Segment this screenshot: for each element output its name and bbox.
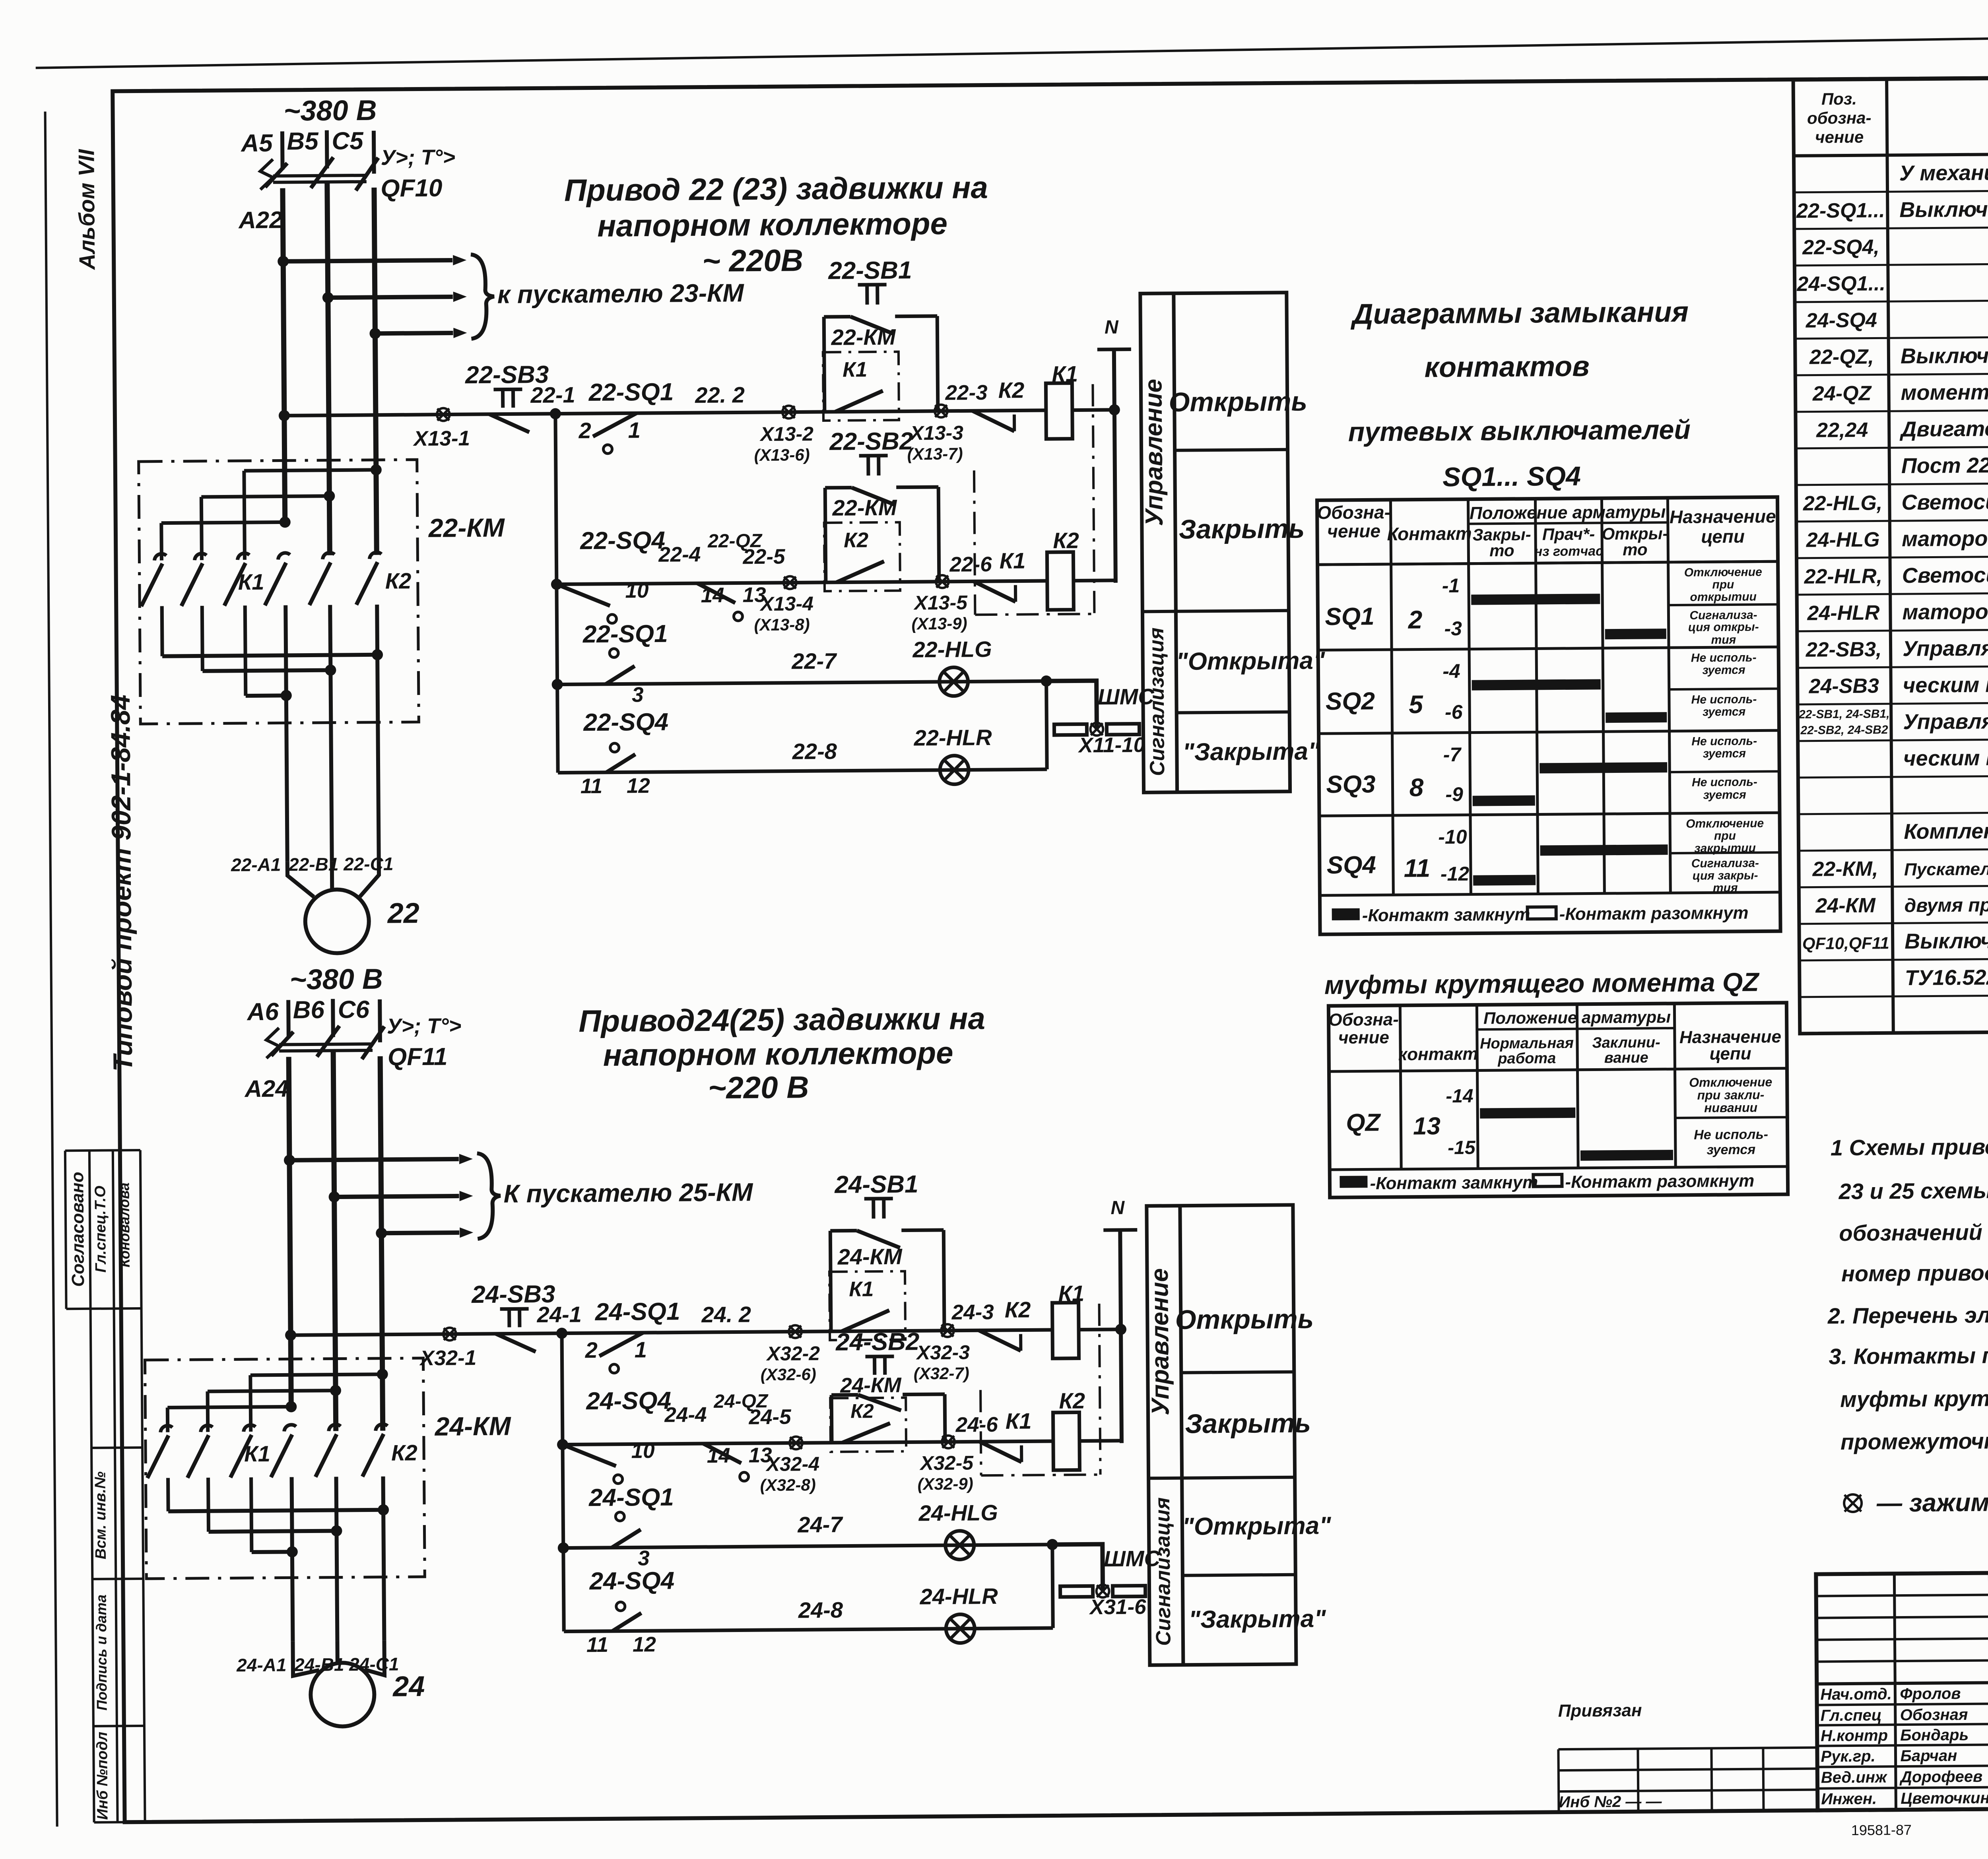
wire jumper A-K1	[167, 1407, 291, 1407]
svg-text:чение: чение	[1327, 520, 1380, 541]
wire to cabinet terminal	[1052, 1544, 1103, 1591]
svg-text:Управление: Управление	[1140, 379, 1168, 526]
svg-text:24-HLG: 24-HLG	[1806, 528, 1880, 551]
wire branch phase C	[381, 1232, 459, 1233]
svg-text:22-КМ,: 22-КМ,	[1812, 857, 1878, 881]
svg-text:Отключение: Отключение	[1684, 565, 1762, 579]
svg-text:22-SB3,: 22-SB3,	[1806, 638, 1882, 661]
svg-text:матором, с зеленым светофильт: матором, с зеленым светофильтром	[1902, 524, 1988, 551]
contactor contact 22-КМ K2 pole 3	[369, 552, 381, 559]
terminal Х32-4 (Х32-8)	[790, 1436, 802, 1449]
wire jumper C-K1	[244, 470, 376, 471]
svg-text:Нормальная: Нормальная	[1480, 1035, 1574, 1052]
svg-text:Инб №подл: Инб №подл	[94, 1732, 111, 1820]
svg-text:Отключение: Отключение	[1686, 817, 1764, 830]
auxiliary contact 22-КМ К2 (self-hold)	[824, 522, 900, 591]
svg-text:24-КМ: 24-КМ	[434, 1411, 511, 1441]
svg-text:Х32-3: Х32-3	[915, 1341, 970, 1364]
svg-text:QF11: QF11	[388, 1043, 448, 1071]
svg-text:Рук.гр.: Рук.гр.	[1821, 1748, 1875, 1766]
svg-text:8: 8	[1409, 773, 1424, 801]
svg-text:Х32-4: Х32-4	[765, 1453, 819, 1475]
svg-text:22-SQ1: 22-SQ1	[588, 378, 674, 406]
svg-text:Н.контр: Н.контр	[1821, 1727, 1888, 1745]
terminal Х32-1	[443, 1327, 456, 1340]
svg-text:Управляющий элемент КУ с ци: Управляющий элемент КУ с цилиндри-	[1903, 707, 1988, 734]
svg-text:24. 2: 24. 2	[701, 1302, 751, 1327]
svg-text:"Закрыта": "Закрыта"	[1182, 737, 1320, 766]
phase terminal ticks А5 В5 С5	[280, 131, 285, 169]
svg-text:муфты крутящего момента QZ: муфты крутящего момента QZ	[1324, 967, 1760, 1000]
svg-text:при: при	[1714, 829, 1736, 842]
svg-text:-9: -9	[1445, 783, 1463, 805]
svg-text:24-SQ1: 24-SQ1	[595, 1298, 680, 1326]
svg-text:SQ3: SQ3	[1326, 770, 1376, 798]
svg-text:(Х32-6): (Х32-6)	[761, 1365, 816, 1384]
svg-text:22-С1: 22-С1	[343, 854, 394, 875]
svg-text:-1: -1	[1442, 574, 1460, 597]
svg-text:Всм. инв.№: Всм. инв.№	[92, 1471, 109, 1559]
svg-text:2: 2	[578, 418, 591, 443]
wire branch to starter 23-КМ phase A	[283, 260, 452, 261]
wire phase bus C	[380, 1056, 383, 1431]
svg-text:Х13-2: Х13-2	[759, 423, 813, 445]
svg-text:24-3: 24-3	[951, 1300, 994, 1324]
contactor contact 22-КМ K1 pole 3	[237, 553, 249, 560]
contactor contact 22-КМ K1 pole 2	[194, 553, 206, 560]
svg-text:к пускателю 23-КМ: к пускателю 23-КМ	[497, 278, 745, 309]
svg-text:2. Перечень элементов приве: 2. Перечень элементов приведен на две за…	[1827, 1299, 1988, 1328]
svg-text:ТУ16.522.064-82: ТУ16.522.064-82	[1905, 965, 1988, 990]
svg-text:нз готчас: нз готчас	[1534, 543, 1604, 559]
svg-text:Инб №2 — —: Инб №2 — —	[1559, 1793, 1662, 1811]
svg-text:-14: -14	[1446, 1086, 1474, 1107]
svg-text:зуется: зуется	[1706, 1142, 1755, 1158]
svg-text:закрытии: закрытии	[1694, 842, 1756, 855]
svg-text:Не исполь-: Не исполь-	[1692, 776, 1757, 789]
terminal X on cabinet edge	[1096, 1585, 1109, 1597]
svg-text:промежуточном положении за: промежуточном положении задвижки	[1840, 1426, 1988, 1455]
svg-text:22-7: 22-7	[791, 648, 837, 674]
svg-text:Не исполь-: Не исполь-	[1694, 1127, 1768, 1142]
svg-text:Привод 22 (23) задвижки на: Привод 22 (23) задвижки на	[564, 170, 988, 208]
svg-text:-7: -7	[1443, 743, 1462, 766]
svg-text:обозначений аппаратов и мар: обозначений аппаратов и маркировки цепей…	[1839, 1216, 1988, 1246]
svg-text:24: 24	[392, 1671, 425, 1703]
svg-text:напорном коллекторе: напорном коллекторе	[597, 206, 947, 243]
svg-text:К1: К1	[843, 358, 867, 381]
brace	[477, 1153, 501, 1239]
svg-text:чение: чение	[1338, 1028, 1389, 1048]
svg-text:22-6: 22-6	[949, 553, 992, 576]
svg-text:Нач.отд.: Нач.отд.	[1820, 1685, 1892, 1703]
node 22-1 junction	[550, 408, 561, 419]
svg-text:— зажим шкафа ШУС: — зажим шкафа ШУС	[1876, 1487, 1988, 1517]
svg-text:22-SB2, 24-SB2: 22-SB2, 24-SB2	[1800, 723, 1888, 737]
svg-text:К1: К1	[999, 548, 1025, 573]
svg-text:Положение арматуры: Положение арматуры	[1470, 502, 1666, 523]
svg-text:22-SB1: 22-SB1	[828, 256, 912, 284]
svg-text:контакт: контакт	[1398, 1044, 1478, 1064]
sheet top edge line	[35, 29, 1988, 68]
svg-text:Х32-2: Х32-2	[766, 1342, 820, 1365]
svg-text:Обозна-: Обозна-	[1328, 1010, 1399, 1030]
contactor contact 24-КМ K2 pole 3	[376, 1424, 388, 1431]
svg-text:24-SB2: 24-SB2	[835, 1328, 920, 1356]
svg-text:22-SQ4: 22-SQ4	[583, 708, 668, 736]
svg-text:3: 3	[632, 683, 644, 706]
svg-text:Типовой проект 902-1-84.84: Типовой проект 902-1-84.84	[105, 695, 138, 1071]
push-button 24-SB2 branch	[830, 1395, 834, 1443]
svg-text:3: 3	[638, 1547, 650, 1570]
control purpose box drive 22	[1140, 293, 1290, 793]
title block revision grid	[1816, 1594, 1988, 1596]
svg-text:двумя приставками контактным: двумя приставками контактными ПКЛ2204	[1904, 893, 1988, 916]
svg-text:(Х32-9): (Х32-9)	[918, 1474, 973, 1493]
QZ table frame	[1328, 1003, 1788, 1197]
svg-text:при: при	[1712, 578, 1734, 591]
contactor contact 24-КМ K2 pole 2	[329, 1424, 341, 1431]
svg-text:нивании: нивании	[1704, 1100, 1757, 1115]
motor 24	[311, 1663, 375, 1727]
svg-text:номер привода, соответственно: номер привода, соответственно меняются н…	[1841, 1257, 1988, 1286]
svg-text:матором, с красным ·светофиль: матором, с красным ·светофильтром	[1902, 598, 1988, 624]
motor 22	[305, 889, 369, 953]
svg-text:1: 1	[628, 417, 641, 442]
svg-text:1: 1	[635, 1337, 647, 1362]
svg-text:Закрыть: Закрыть	[1178, 514, 1305, 545]
svg-text:Х31-6: Х31-6	[1089, 1595, 1146, 1619]
svg-text:22-HLR,: 22-HLR,	[1804, 565, 1882, 588]
title block signature rows	[1817, 1703, 1988, 1705]
svg-text:24-5: 24-5	[748, 1405, 792, 1429]
svg-text:22: 22	[386, 897, 419, 929]
wire motor leads	[293, 1641, 319, 1676]
svg-text:контактов: контактов	[1424, 351, 1590, 384]
svg-text:К1: К1	[244, 1441, 270, 1466]
svg-text:зуется: зуется	[1702, 664, 1745, 677]
svg-text:22-КМ: 22-КМ	[428, 513, 505, 543]
svg-text:К2: К2	[391, 1440, 417, 1465]
wire lower jumper to phase A drop	[252, 1550, 292, 1554]
svg-text:SQ4: SQ4	[1327, 851, 1376, 879]
svg-text:Привязан: Привязан	[1558, 1701, 1642, 1721]
svg-text:напорном коллекторе: напорном коллекторе	[603, 1035, 953, 1073]
svg-text:24-HLR: 24-HLR	[919, 1583, 998, 1609]
svg-text:QF10: QF10	[381, 175, 443, 202]
svg-text:Х13-1: Х13-1	[412, 427, 470, 450]
svg-text:А24: А24	[244, 1075, 289, 1102]
svg-text:Светосигнальная арматура с т: Светосигнальная арматура с трансфор-	[1901, 487, 1988, 514]
svg-text:К пускателю 25-КМ: К пускателю 25-КМ	[503, 1178, 753, 1208]
contactor contact 24-КМ K2 pole 1	[284, 1425, 296, 1432]
svg-text:Диаграммы замыкания: Диаграммы замыкания	[1350, 296, 1689, 330]
wire control rung 4 (signal closed) drive 24	[564, 1628, 1053, 1632]
legend clamp symbol	[1844, 1494, 1862, 1512]
node 24-1 junction	[556, 1328, 567, 1339]
svg-text:24-SQ4: 24-SQ4	[586, 1387, 671, 1415]
svg-text:чение: чение	[1815, 128, 1864, 147]
svg-text:А5: А5	[240, 130, 273, 157]
svg-text:1 Схемы приведены для пр: 1 Схемы приведены для приводов 22 и 24. …	[1831, 1131, 1988, 1160]
svg-text:11: 11	[580, 774, 602, 798]
svg-text:В6: В6	[293, 996, 324, 1024]
svg-text:22-SB2: 22-SB2	[829, 427, 913, 455]
svg-text:К2: К2	[385, 568, 412, 593]
auxiliary contact 24-КМ К1 (self-hold)	[829, 1271, 905, 1340]
wire branch to starter 25-КМ phase A	[289, 1159, 459, 1160]
svg-text:Светосигнальная арматура с т: Светосигнальная арматура с трансфор-	[1902, 561, 1988, 588]
wire branch phase B	[334, 1196, 459, 1197]
svg-text:Поз.: Поз.	[1821, 89, 1857, 109]
svg-text:22-HLR: 22-HLR	[913, 725, 992, 750]
svg-text:К2: К2	[844, 528, 868, 552]
wire jumper C-K1	[250, 1374, 382, 1375]
svg-text:ческим толкателем с самово: ческим толкателем с самовозвратом	[1903, 744, 1988, 770]
node lamp common	[1041, 675, 1052, 687]
svg-text:цепи: цепи	[1701, 526, 1745, 547]
svg-text:11: 11	[586, 1633, 608, 1657]
svg-text:12: 12	[627, 774, 650, 798]
svg-text:22-3: 22-3	[945, 381, 987, 405]
svg-text:К1: К1	[849, 1277, 874, 1301]
svg-text:К2: К2	[850, 1400, 874, 1422]
auxiliary contact 24-КМ К2 (self-hold)	[830, 1398, 906, 1452]
wire control rung 4 (signal closed) drive 22	[558, 769, 1047, 773]
terminal Х13-5 (Х13-9)	[936, 575, 949, 588]
svg-text:3. Контакты путевых выклю: 3. Контакты путевых выключателей и выклю…	[1829, 1339, 1988, 1369]
svg-text:24-SQ1...: 24-SQ1...	[1796, 272, 1885, 296]
title block outer frame	[1816, 1568, 1988, 1810]
wire feed for signal rungs drive 22	[555, 414, 558, 773]
svg-text:Не исполь-: Не исполь-	[1691, 735, 1757, 748]
svg-text:"Открыта": "Открыта"	[1182, 1512, 1332, 1541]
contactor contact 24-КМ K1 pole 3	[244, 1425, 256, 1432]
terminal Х32-3 (Х32-7)	[941, 1324, 954, 1337]
wire phase bus B	[327, 182, 330, 555]
mechanical linkage dash-dot lines	[980, 1390, 981, 1475]
SQ table frame	[1317, 497, 1780, 934]
svg-text:Барчан: Барчан	[1900, 1747, 1957, 1765]
svg-text:К1: К1	[1006, 1408, 1032, 1433]
svg-text:24-1: 24-1	[536, 1302, 582, 1327]
svg-text:А6: А6	[247, 998, 279, 1026]
svg-text:24-SB3: 24-SB3	[1808, 674, 1879, 698]
terminal Х13-2 (Х13-6)	[782, 406, 795, 418]
svg-text:SQ1: SQ1	[1325, 603, 1375, 631]
svg-text:К1: К1	[238, 569, 264, 594]
svg-text:Бондарь: Бондарь	[1900, 1726, 1969, 1744]
contactor contact 22-КМ K1 pole 1	[154, 554, 166, 561]
svg-text:то: то	[1489, 541, 1514, 560]
wire feed for signal rungs drive 24	[562, 1333, 564, 1632]
wire control rung 2 (close) drive 24	[563, 1441, 1053, 1445]
svg-text:Х32-1: Х32-1	[419, 1346, 477, 1370]
svg-text:ция откры-: ция откры-	[1688, 621, 1759, 634]
wire lamp return	[1052, 1545, 1053, 1628]
svg-text:24-SQ4: 24-SQ4	[589, 1567, 674, 1595]
svg-text:С6: С6	[338, 996, 369, 1024]
svg-text:22-4: 22-4	[658, 543, 701, 567]
wire K1 pole bottoms	[160, 606, 164, 656]
svg-text:10: 10	[631, 1439, 654, 1463]
svg-text:5: 5	[1409, 690, 1424, 718]
svg-text:(Х13-9): (Х13-9)	[911, 614, 967, 633]
wire control rung 1 (open) drive 24	[291, 1330, 1052, 1335]
svg-text:-15: -15	[1448, 1137, 1476, 1158]
svg-text:~380 В: ~380 В	[289, 963, 383, 996]
svg-text:~380 В: ~380 В	[283, 95, 377, 127]
svg-text:Положение арматуры: Положение арматуры	[1483, 1007, 1671, 1027]
svg-text:У>; Т°>: У>; Т°>	[387, 1014, 462, 1038]
svg-text:22-SQ1...: 22-SQ1...	[1796, 199, 1885, 223]
push-button 22-SB2 branch	[825, 488, 826, 582]
terminal X on cabinet edge	[1090, 723, 1103, 735]
svg-text:обозна-: обозна-	[1807, 109, 1872, 128]
svg-text:Не исполь-: Не исполь-	[1691, 651, 1757, 665]
terminal Х13-3 (Х13-7)	[935, 405, 947, 417]
circuit breaker QF11	[266, 1028, 280, 1058]
terminal Х32-5 (Х32-9)	[942, 1436, 955, 1448]
svg-text:22-HLG: 22-HLG	[912, 636, 992, 662]
svg-text:24-6: 24-6	[955, 1413, 998, 1437]
svg-text:Сигнализация: Сигнализация	[1145, 627, 1169, 776]
svg-text:QZ: QZ	[1346, 1109, 1381, 1137]
svg-text:-4: -4	[1442, 660, 1460, 682]
svg-text:-Контакт разомкнут: -Контакт разомкнут	[1565, 1171, 1754, 1192]
QZ legend	[1340, 1176, 1367, 1188]
svg-text:24-QZ: 24-QZ	[1812, 382, 1872, 406]
svg-text:Пост 22-ПУ, 24-ПУ: Пост 22-ПУ, 24-ПУ	[1901, 453, 1988, 478]
svg-text:Х11-10: Х11-10	[1077, 733, 1145, 757]
wire jumper B-K1	[208, 1391, 336, 1391]
wire lower jumper to phase B drop	[209, 1531, 337, 1532]
svg-text:22-SB1, 24-SB1,: 22-SB1, 24-SB1,	[1798, 707, 1890, 721]
svg-text:путевых выключателей: путевых выключателей	[1348, 415, 1691, 447]
svg-text:"Открыта": "Открыта"	[1176, 647, 1326, 675]
svg-text:22-5: 22-5	[742, 545, 786, 569]
svg-text:зуется: зуется	[1703, 705, 1746, 719]
circuit breaker QF10	[260, 159, 273, 190]
svg-text:Дорофеев: Дорофеев	[1899, 1768, 1983, 1786]
element list table frame	[1793, 74, 1988, 1033]
svg-text:"Закрыта": "Закрыта"	[1188, 1605, 1326, 1633]
svg-text:(Х13-7): (Х13-7)	[907, 444, 963, 464]
contactor contact 22-КМ K2 pole 2	[322, 553, 334, 559]
svg-text:(Х32-7): (Х32-7)	[914, 1364, 969, 1383]
mechanical linkage dash-dot lines	[974, 470, 975, 615]
svg-text:зуется: зуется	[1703, 788, 1746, 802]
svg-text:Цветочкина: Цветочкина	[1901, 1789, 1988, 1807]
svg-text:-10: -10	[1438, 826, 1467, 848]
svg-text:Привод24(25) задвижки на: Привод24(25) задвижки на	[579, 1001, 985, 1038]
svg-text:12: 12	[633, 1633, 656, 1656]
svg-text:Закрыть: Закрыть	[1185, 1408, 1311, 1439]
svg-text:Комплектное устройство, шкаф: Комплектное устройство, шкаф ШУС	[1904, 817, 1988, 844]
wire phase bus A	[283, 188, 285, 522]
auxiliary contact 22-КМ К1 (self-hold)	[823, 352, 899, 421]
control purpose box drive 24	[1147, 1205, 1296, 1665]
svg-text:Сигнализация: Сигнализация	[1151, 1497, 1175, 1646]
svg-text:вание: вание	[1604, 1050, 1648, 1067]
svg-text:то: то	[1623, 540, 1648, 559]
svg-text:Сигнализа-: Сигнализа-	[1689, 609, 1757, 622]
wire lower jumper to phase A drop	[246, 693, 286, 698]
svg-text:С5: С5	[332, 127, 364, 155]
svg-text:Фролов: Фролов	[1900, 1685, 1961, 1703]
svg-text:ческим толкателем с самовоз: ческим толкателем с самовозвратом	[1903, 671, 1988, 697]
wire jumper B-K1	[201, 496, 329, 497]
svg-text:К2: К2	[1053, 528, 1079, 553]
svg-text:тия: тия	[1711, 633, 1736, 646]
svg-text:10: 10	[625, 579, 648, 602]
svg-text:22,24: 22,24	[1816, 419, 1868, 442]
node lamp common	[1047, 1539, 1058, 1550]
svg-text:22-КМ: 22-КМ	[832, 495, 897, 520]
svg-text:23 и 25 схемы аналогичны.: 23 и 25 схемы аналогичны. Цифры 22 и 24 …	[1838, 1174, 1988, 1204]
svg-text:24-4: 24-4	[664, 1403, 707, 1427]
svg-text:Управляющий элемент КУ с: Управляющий элемент КУ с цилиндри-	[1903, 634, 1988, 661]
SQ table legend	[1332, 908, 1360, 920]
svg-text:22-SQ4: 22-SQ4	[580, 527, 665, 555]
wire lower jumper to phase C drop	[162, 655, 377, 656]
svg-text:19581-87: 19581-87	[1851, 1822, 1912, 1838]
svg-text:Выключатель АЕ2026-10УЗ, Iр: Выключатель АЕ2026-10УЗ, Iр 10А,	[1905, 927, 1988, 953]
svg-text:24-SQ1: 24-SQ1	[588, 1484, 674, 1512]
svg-text:В5: В5	[287, 128, 319, 155]
svg-text:Открыть: Открыть	[1169, 386, 1307, 417]
svg-text:13: 13	[1413, 1112, 1441, 1140]
svg-text:Гл.спец: Гл.спец	[1821, 1706, 1882, 1724]
svg-text:22-КМ: 22-КМ	[831, 324, 896, 350]
contactor contact 24-КМ K1 pole 1	[161, 1426, 173, 1432]
svg-text:SQ1... SQ4: SQ1... SQ4	[1442, 461, 1581, 492]
svg-text:22-SQ1: 22-SQ1	[582, 620, 668, 648]
wire lower jumper to phase C drop	[168, 1510, 383, 1512]
svg-text:Альбом VII: Альбом VII	[74, 149, 99, 271]
wire control rung 3 (signal opened) drive 22	[557, 681, 1048, 685]
push-button 24-SB1 branch	[830, 1231, 831, 1331]
cabinet boundary ШМС	[1060, 1586, 1093, 1597]
svg-text:22. 2: 22. 2	[695, 382, 745, 408]
wire control rung 2 (close) drive 22	[557, 581, 1047, 584]
svg-text:24-А1: 24-А1	[236, 1654, 287, 1675]
svg-text:Подпись и дата: Подпись и дата	[93, 1595, 110, 1711]
wire control rung 1 (open) drive 22	[284, 410, 1046, 415]
svg-text:Выключатель муфты крутящего: Выключатель муфты крутящего	[1901, 342, 1988, 368]
terminal Х13-4 (Х13-8)	[784, 576, 796, 589]
svg-text:К2: К2	[1059, 1388, 1085, 1413]
wire branch phase C	[375, 333, 453, 333]
wire phase bus B	[333, 1051, 336, 1431]
contactor contact 22-КМ K2 pole 1	[278, 553, 290, 560]
svg-text:Х13-3: Х13-3	[909, 421, 963, 444]
svg-text:Заклини-: Заклини-	[1592, 1034, 1660, 1051]
svg-text:-Контакт замкнут: -Контакт замкнут	[1362, 905, 1530, 926]
svg-text:QF10,QF11: QF10,QF11	[1802, 933, 1889, 953]
svg-text:Х32-5: Х32-5	[919, 1451, 974, 1474]
svg-text:24-SQ4: 24-SQ4	[1806, 309, 1877, 332]
svg-text:Гл.спец.Т.О: Гл.спец.Т.О	[92, 1186, 109, 1273]
svg-text:22-8: 22-8	[792, 739, 837, 764]
svg-text:А22: А22	[238, 206, 283, 233]
sheet left edge line	[45, 112, 57, 1827]
svg-text:22-А1: 22-А1	[231, 854, 281, 875]
svg-text:~ 220В: ~ 220В	[702, 243, 803, 278]
wire phase bus C	[374, 188, 377, 555]
svg-text:Согласовано: Согласовано	[68, 1172, 88, 1287]
svg-text:Назначение: Назначение	[1670, 506, 1776, 527]
